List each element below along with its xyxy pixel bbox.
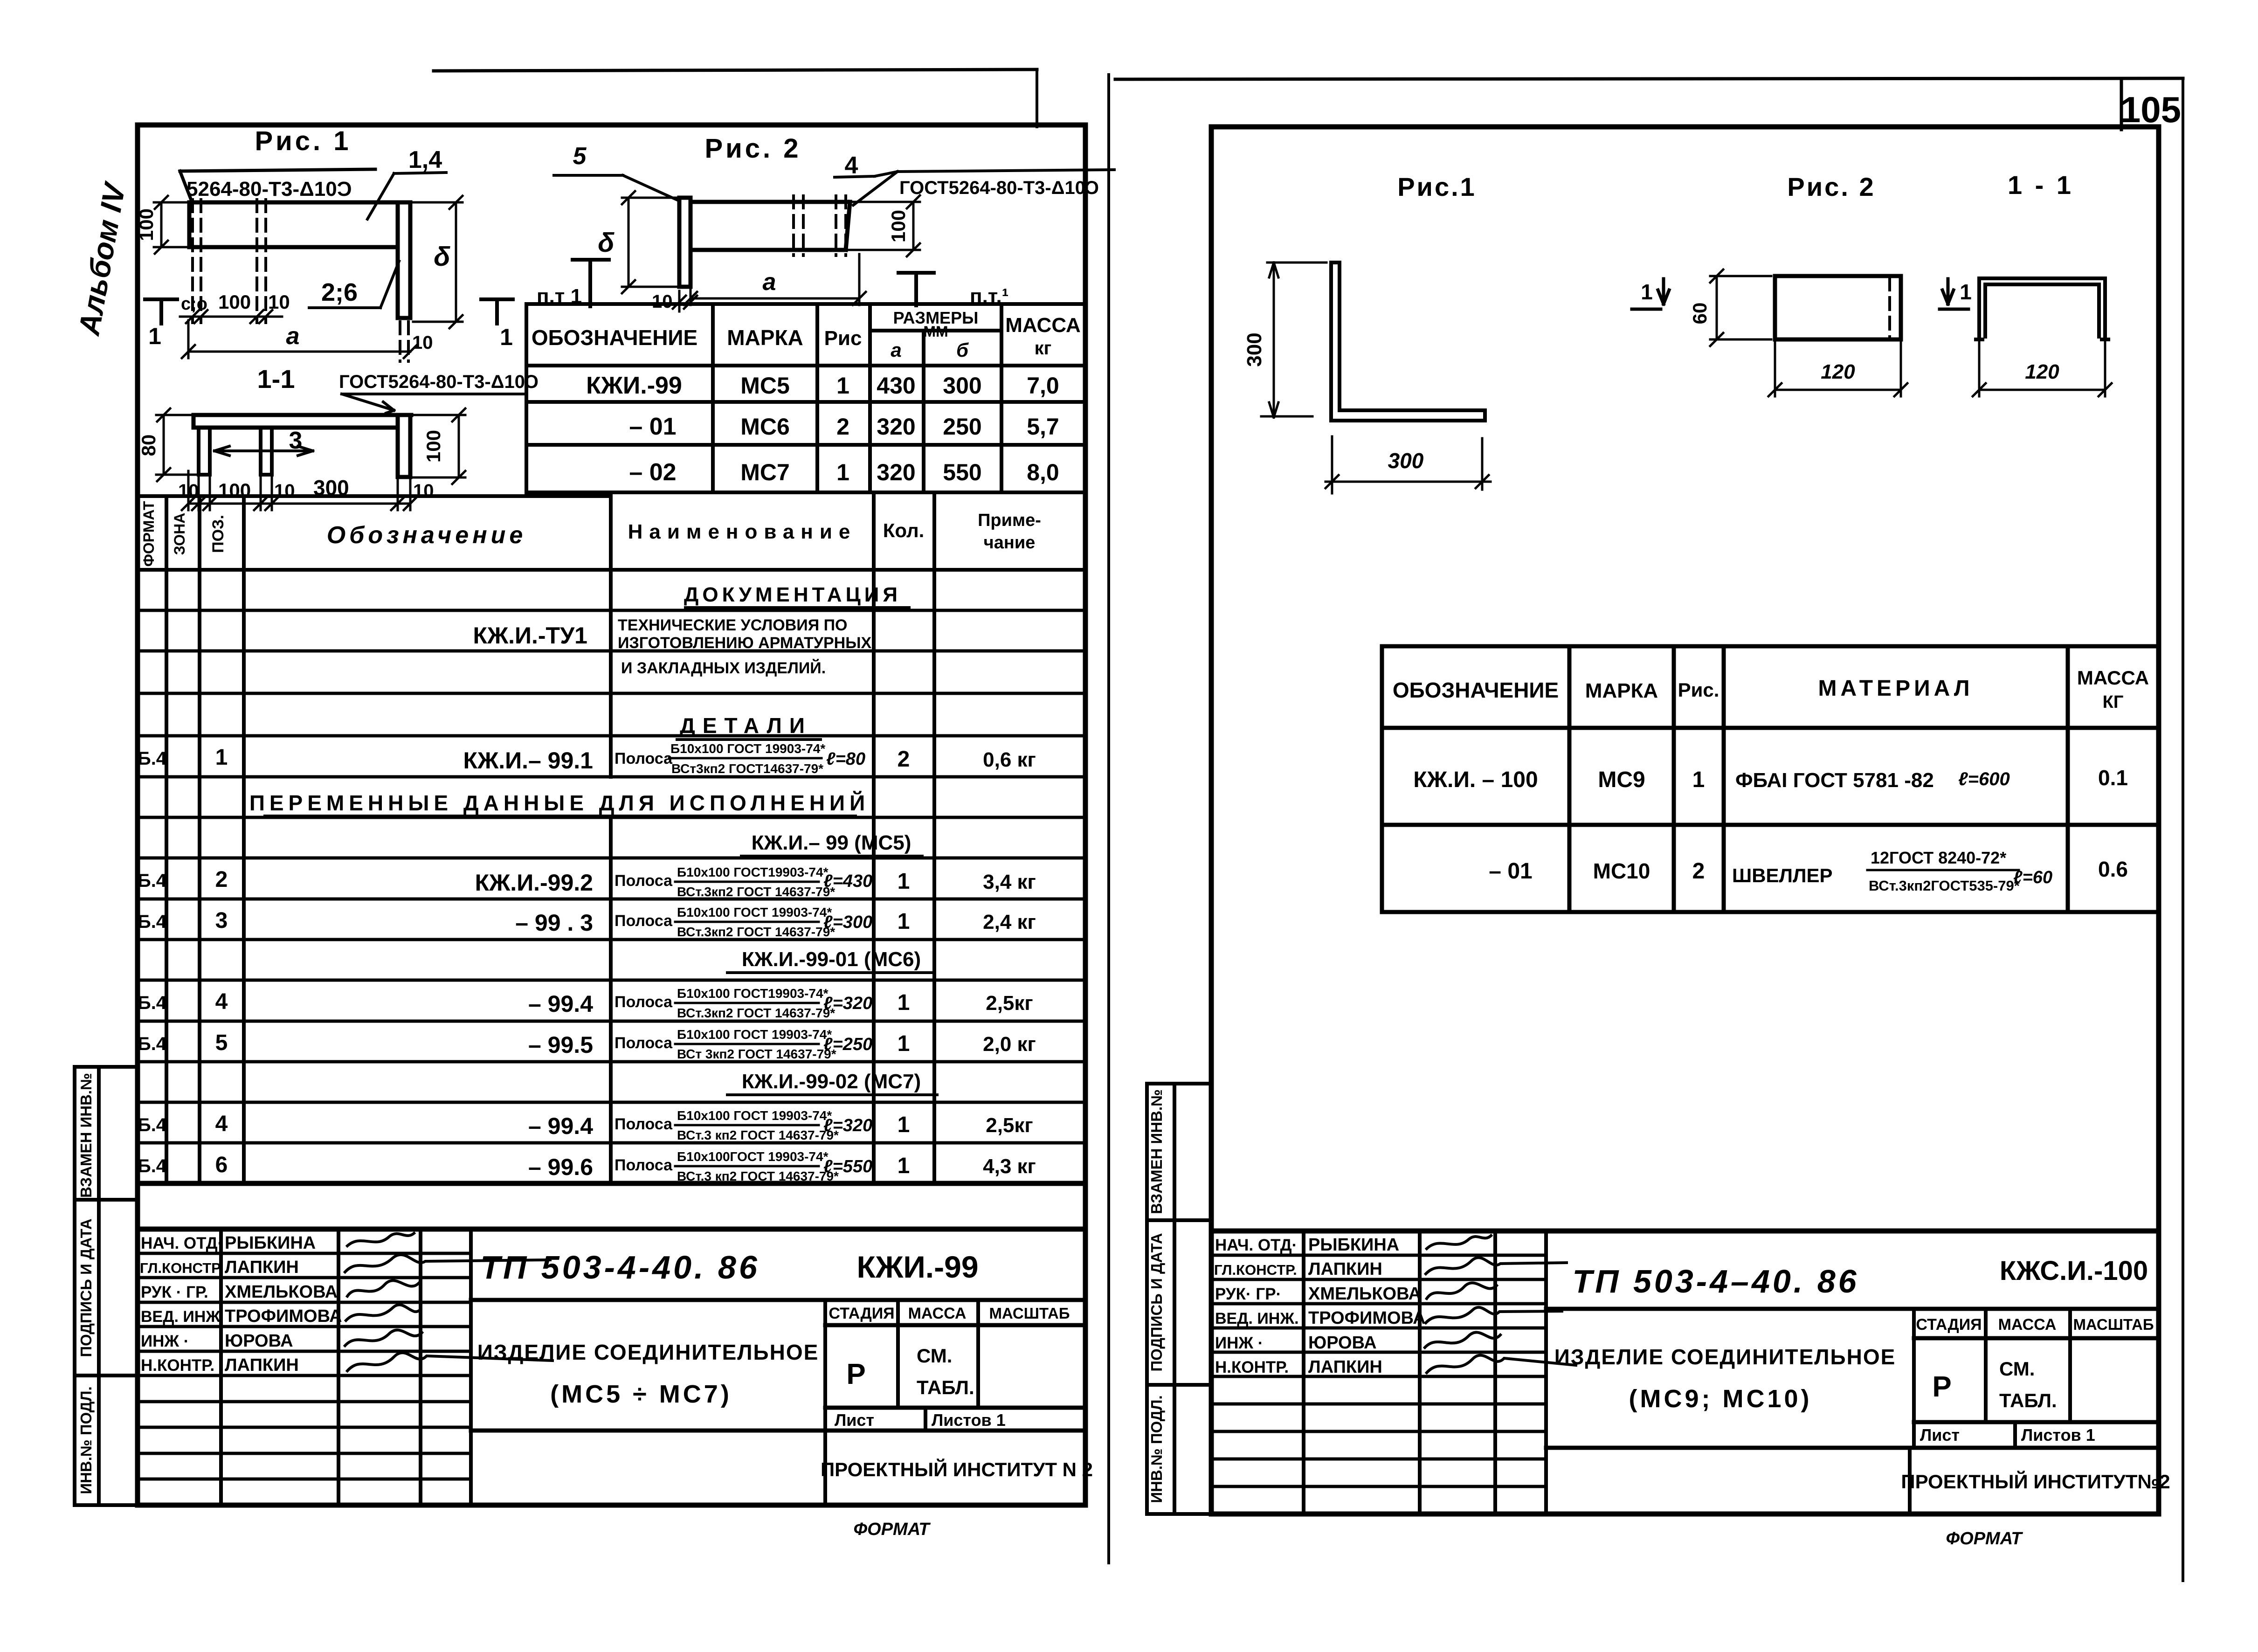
svg-text:ТАБЛ.: ТАБЛ. xyxy=(917,1376,974,1398)
node section mark left fig2 xyxy=(1632,279,1669,309)
svg-text:ВСт.3кп2 ГОСТ 14637-79*: ВСт.3кп2 ГОСТ 14637-79* xyxy=(677,925,835,939)
svg-text:ЮРОВА: ЮРОВА xyxy=(1308,1333,1377,1353)
svg-text:ВСт 3кп2 ГОСТ 14637-79*: ВСт 3кп2 ГОСТ 14637-79* xyxy=(677,1047,836,1061)
svg-text:Б10х100ГОСТ 19903-74*: Б10х100ГОСТ 19903-74* xyxy=(677,1149,829,1164)
svg-text:МАСШТАБ: МАСШТАБ xyxy=(989,1305,1070,1322)
wire rtitle verticals xyxy=(1304,1231,2070,1514)
wire fig2 weld dashed pair A xyxy=(794,196,803,256)
svg-text:Рис: Рис xyxy=(824,327,862,350)
RIGHT SHEET MATERIAL TABLE xyxy=(1382,646,2159,912)
svg-text:КГ: КГ xyxy=(2103,692,2124,712)
svg-text:Полоса: Полоса xyxy=(615,1156,673,1174)
svg-text:430: 430 xyxy=(877,373,915,399)
svg-text:ПОДПИСЬ И ДАТА: ПОДПИСЬ И ДАТА xyxy=(1148,1233,1165,1371)
node page number box divider xyxy=(2120,79,2123,130)
svg-text:300: 300 xyxy=(943,373,981,399)
svg-text:10: 10 xyxy=(178,481,199,501)
svg-text:РУК · ГР.: РУК · ГР. xyxy=(141,1283,208,1301)
svg-text:ℓ=60: ℓ=60 xyxy=(2013,868,2052,887)
svg-text:2,5кг: 2,5кг xyxy=(986,1114,1033,1137)
svg-text:ИЗДЕЛИЕ СОЕДИНИТЕЛЬНОЕ: ИЗДЕЛИЕ СОЕДИНИТЕЛЬНОЕ xyxy=(1554,1345,1896,1369)
wire parts table grid xyxy=(526,304,1084,492)
svg-text:ХМЕЛЬКОВА: ХМЕЛЬКОВА xyxy=(1308,1284,1421,1304)
svg-text:ℓ=250: ℓ=250 xyxy=(823,1035,872,1054)
svg-text:Б10х100 ГОСТ 19903-74*: Б10х100 ГОСТ 19903-74* xyxy=(677,1108,832,1123)
wire scan top edge left sheet xyxy=(434,69,1037,71)
wire rtitle rows right xyxy=(1546,1309,2159,1448)
svg-text:МС10: МС10 xyxy=(1593,859,1650,883)
svg-text:1: 1 xyxy=(1692,767,1705,792)
svg-text:РЫБКИНА: РЫБКИНА xyxy=(225,1233,316,1253)
svg-text:ЛАПКИН: ЛАПКИН xyxy=(1308,1259,1382,1279)
svg-text:МАСШТАБ: МАСШТАБ xyxy=(2073,1316,2154,1333)
svg-text:10: 10 xyxy=(652,291,673,312)
wire plate rect fig2 xyxy=(1775,276,1901,339)
svg-text:ТРОФИМОВА: ТРОФИМОВА xyxy=(1308,1308,1426,1328)
svg-text:6: 6 xyxy=(215,1153,228,1177)
node dim delta fig2 xyxy=(622,191,676,293)
RIGHT SHEET FRAME xyxy=(1147,127,2159,1514)
svg-text:МАТЕРИАЛ: МАТЕРИАЛ xyxy=(1818,676,1973,701)
svg-text:Полоса: Полоса xyxy=(615,750,673,767)
svg-text:4: 4 xyxy=(845,152,858,179)
LEFT SHEET FIGURE 1 xyxy=(135,126,539,510)
wire right sheet frame xyxy=(1211,127,2159,1514)
svg-text:МАССА: МАССА xyxy=(1005,314,1081,337)
svg-text:СТАДИЯ: СТАДИЯ xyxy=(829,1305,894,1322)
svg-text:1: 1 xyxy=(898,1113,910,1137)
node dim 100 left xyxy=(154,196,189,254)
svg-text:МАРКА: МАРКА xyxy=(727,325,803,350)
wire fig2 weld dashed pair B xyxy=(836,196,846,256)
svg-text:МС9: МС9 xyxy=(1598,767,1645,792)
svg-text:ГЛ.КОНСТР.: ГЛ.КОНСТР. xyxy=(1214,1262,1297,1278)
svg-text:ГЛ.КОНСТР.: ГЛ.КОНСТР. xyxy=(140,1260,223,1276)
svg-text:ИНЖ ·: ИНЖ · xyxy=(141,1332,189,1350)
svg-text:МС6: МС6 xyxy=(740,414,790,440)
svg-text:1: 1 xyxy=(1960,280,1972,304)
svg-text:0.1: 0.1 xyxy=(2098,766,2128,790)
svg-text:ИЗГОТОВЛЕНИЮ АРМАТУРНЫХ: ИЗГОТОВЛЕНИЮ АРМАТУРНЫХ xyxy=(618,634,872,652)
svg-text:ШВЕЛЛЕР: ШВЕЛЛЕР xyxy=(1732,864,1833,886)
svg-text:– 99 . 3: – 99 . 3 xyxy=(515,910,593,936)
svg-text:ОБОЗНАЧЕНИЕ: ОБОЗНАЧЕНИЕ xyxy=(1393,678,1559,702)
wire spec verticals xyxy=(166,492,934,1183)
LEFT SHEET FIGURE 2 xyxy=(537,133,1114,312)
wire rtitle top xyxy=(1211,1229,2159,1234)
svg-text:10: 10 xyxy=(412,332,433,353)
svg-text:5: 5 xyxy=(573,143,587,170)
svg-text:10: 10 xyxy=(413,481,434,501)
svg-text:7,0: 7,0 xyxy=(1027,373,1059,399)
svg-text:КЖ.И.-99-01 (МС6): КЖ.И.-99-01 (МС6) xyxy=(742,948,921,971)
svg-text:МАССА: МАССА xyxy=(1998,1316,2057,1334)
svg-text:ПОДПИСЬ И ДАТА: ПОДПИСЬ И ДАТА xyxy=(77,1218,95,1357)
node dim a bottom xyxy=(182,320,417,358)
svg-text:ВСт.3 кп2 ГОСТ 14637-79*: ВСт.3 кп2 ГОСТ 14637-79* xyxy=(677,1128,839,1142)
svg-text:КЖ.И.– 99 (МС5): КЖ.И.– 99 (МС5) xyxy=(752,831,911,854)
svg-text:ВЗАМЕН ИНВ.№: ВЗАМЕН ИНВ.№ xyxy=(1148,1089,1165,1214)
PAGE-LINES xyxy=(434,69,2183,1581)
wire spec row lines xyxy=(138,610,1084,1143)
svg-text:Б.4: Б.4 xyxy=(138,993,167,1013)
wire rtitle rows left xyxy=(1211,1255,1546,1486)
svg-text:СМ.: СМ. xyxy=(917,1345,952,1367)
node signatures xyxy=(347,1233,414,1246)
svg-text:ПРОЕКТНЫЙ ИНСТИТУТ N 2: ПРОЕКТНЫЙ ИНСТИТУТ N 2 xyxy=(821,1458,1093,1480)
svg-text:Б10х100 ГОСТ 19903-74*: Б10х100 ГОСТ 19903-74* xyxy=(670,741,825,756)
svg-text:а: а xyxy=(891,339,901,361)
svg-text:1: 1 xyxy=(898,1031,910,1056)
svg-text:4: 4 xyxy=(215,989,228,1014)
svg-text:Наименование: Наименование xyxy=(628,520,857,543)
svg-text:Р: Р xyxy=(1932,1371,1951,1403)
svg-text:ФБАΙ ГОСТ 5781 -82: ФБАΙ ГОСТ 5781 -82 xyxy=(1735,769,1934,792)
svg-text:Полоса: Полоса xyxy=(615,872,673,890)
svg-text:Н.КОНТР.: Н.КОНТР. xyxy=(1215,1358,1289,1376)
svg-text:ℓ=320: ℓ=320 xyxy=(823,994,872,1013)
svg-text:ℓ=430: ℓ=430 xyxy=(823,871,872,891)
node dim 300 vertical xyxy=(1261,263,1326,417)
svg-text:Р: Р xyxy=(846,1358,865,1390)
svg-text:ФОРМАТ: ФОРМАТ xyxy=(853,1520,931,1539)
wire fig2 vertical bar xyxy=(679,198,691,287)
svg-text:5,7: 5,7 xyxy=(1027,414,1059,440)
wire left strip outer xyxy=(75,1067,138,1505)
svg-text:Листов 1: Листов 1 xyxy=(2021,1425,2095,1445)
svg-text:КЖ.И.-ТУ1: КЖ.И.-ТУ1 xyxy=(473,622,587,649)
svg-text:Б.4: Б.4 xyxy=(138,912,167,932)
svg-text:105: 105 xyxy=(2120,89,2181,130)
svg-text:Н.КОНТР.: Н.КОНТР. xyxy=(141,1356,214,1375)
svg-text:0.6: 0.6 xyxy=(2098,857,2128,881)
svg-text:ИНВ.№ ПОДЛ.: ИНВ.№ ПОДЛ. xyxy=(77,1386,95,1494)
wire section mid leg xyxy=(261,428,272,475)
svg-text:МАССА: МАССА xyxy=(908,1305,967,1322)
svg-text:ФОРМАТ: ФОРМАТ xyxy=(1946,1529,2023,1548)
svg-text:МС5: МС5 xyxy=(740,373,790,399)
svg-text:δ: δ xyxy=(598,228,615,258)
svg-text:ХМЕЛЬКОВА: ХМЕЛЬКОВА xyxy=(225,1282,338,1302)
svg-text:Рис. 1: Рис. 1 xyxy=(255,126,351,156)
svg-text:РЫБКИНА: РЫБКИНА xyxy=(1308,1235,1399,1255)
svg-text:300: 300 xyxy=(1388,449,1424,473)
svg-text:ВСт3кп2 ГОСТ14637-79*: ВСт3кп2 ГОСТ14637-79* xyxy=(671,761,823,776)
node dim 120 fig2 xyxy=(1768,341,1907,396)
svg-text:Рис. 2: Рис. 2 xyxy=(1787,172,1875,201)
svg-text:Б.4: Б.4 xyxy=(138,748,167,769)
node dim 60 xyxy=(1710,270,1771,346)
node dim a fig2 xyxy=(684,254,866,305)
svg-text:2;6: 2;6 xyxy=(321,278,358,306)
svg-text:ФОРМАТ: ФОРМАТ xyxy=(140,501,157,567)
svg-text:120: 120 xyxy=(1821,360,1855,383)
svg-text:СТАДИЯ: СТАДИЯ xyxy=(1916,1316,1982,1334)
svg-text:Полоса: Полоса xyxy=(615,912,673,930)
svg-text:100: 100 xyxy=(135,208,157,241)
node section mark 1 right xyxy=(481,299,513,324)
node dim 100 right section xyxy=(413,408,465,484)
RIGHT SHEET FIGURES xyxy=(1243,170,2112,493)
node dim delta right xyxy=(413,196,463,328)
LEFT SHEET PARTS TABLE xyxy=(526,304,1084,492)
svg-text:Б.4: Б.4 xyxy=(138,1156,167,1176)
svg-text:ТРОФИМОВА: ТРОФИМОВА xyxy=(225,1306,342,1326)
svg-text:320: 320 xyxy=(877,459,915,485)
svg-text:100: 100 xyxy=(887,210,909,242)
node dim 120 channel xyxy=(1973,342,2112,396)
svg-text:1: 1 xyxy=(500,324,513,350)
svg-text:5264-80-Т3-Δ10Ͻ: 5264-80-Т3-Δ10Ͻ xyxy=(186,178,352,200)
svg-text:а: а xyxy=(763,269,776,296)
svg-text:Б.4: Б.4 xyxy=(138,871,167,891)
svg-text:КЖ.И. – 100: КЖ.И. – 100 xyxy=(1413,767,1538,792)
svg-text:МАРКА: МАРКА xyxy=(1585,679,1658,702)
wire weld dashed pair A xyxy=(193,200,201,323)
svg-text:ТЕХНИЧЕСКИЕ УСЛОВИЯ ПО: ТЕХНИЧЕСКИЕ УСЛОВИЯ ПО xyxy=(618,616,847,634)
svg-text:ДОКУМЕНТАЦИЯ: ДОКУМЕНТАЦИЯ xyxy=(684,583,901,606)
svg-text:ВЕД. ИНЖ: ВЕД. ИНЖ xyxy=(141,1308,220,1326)
svg-text:– 99.6: – 99.6 xyxy=(528,1154,593,1180)
svg-text:Кол.: Кол. xyxy=(883,519,925,541)
svg-text:8,0: 8,0 xyxy=(1027,459,1059,485)
wire fig2 plate xyxy=(691,202,850,250)
svg-text:5: 5 xyxy=(215,1030,228,1055)
svg-text:Рис.1: Рис.1 xyxy=(1397,172,1477,201)
svg-text:ВСт.3кп2ГОСТ535-79*: ВСт.3кп2ГОСТ535-79* xyxy=(1869,878,2020,894)
svg-text:Полоса: Полоса xyxy=(615,1115,673,1133)
svg-text:РУК· ГР·: РУК· ГР· xyxy=(1215,1285,1281,1303)
svg-text:4: 4 xyxy=(215,1112,228,1136)
svg-text:ПОЗ.: ПОЗ. xyxy=(209,515,227,553)
svg-text:δ: δ xyxy=(434,242,450,272)
wire title verticals xyxy=(221,1229,978,1505)
svg-text:ММ: ММ xyxy=(923,323,948,340)
node section mark right fig2 xyxy=(1940,279,1968,309)
svg-text:250: 250 xyxy=(943,414,981,440)
svg-text:КЖС.И.-100: КЖС.И.-100 xyxy=(2000,1256,2148,1286)
svg-text:1: 1 xyxy=(1641,280,1653,304)
svg-text:ℓ=80: ℓ=80 xyxy=(826,749,865,769)
node dim 300 horizontal xyxy=(1326,436,1491,493)
wire spec top line xyxy=(138,494,611,498)
svg-text:3,4 кг: 3,4 кг xyxy=(983,871,1036,893)
node dim 10 100 10 small xyxy=(180,310,282,323)
wire right-sheet left paper edge xyxy=(1107,75,1110,1563)
node callout GOST 5264 fig2 xyxy=(853,170,1114,205)
svg-text:10: 10 xyxy=(268,291,290,313)
svg-text:Б.4: Б.4 xyxy=(138,1115,167,1135)
svg-text:4,3 кг: 4,3 кг xyxy=(983,1155,1036,1178)
svg-text:Б10х100 ГОСТ 19903-74*: Б10х100 ГОСТ 19903-74* xyxy=(677,905,832,919)
svg-text:ЮРОВА: ЮРОВА xyxy=(225,1331,293,1351)
node bottom dims 10 100 10 300 10 xyxy=(182,471,417,510)
svg-text:ПЕРЕМЕННЫЕ ДАННЫЕ ДЛЯ ИСПОЛ: ПЕРЕМЕННЫЕ ДАННЫЕ ДЛЯ ИСПОЛНЕНИЙ xyxy=(249,791,870,815)
svg-text:2: 2 xyxy=(898,747,910,772)
wire weld dashed right edge xyxy=(1888,278,1891,338)
svg-text:1: 1 xyxy=(148,323,161,349)
svg-text:ℓ=300: ℓ=300 xyxy=(823,912,872,932)
svg-text:2: 2 xyxy=(836,414,849,440)
svg-text:1 - 1: 1 - 1 xyxy=(2008,170,2074,200)
wire channel shape xyxy=(1976,278,2108,339)
svg-text:ГОСТ5264-80-Т3-Δ10Ͻ: ГОСТ5264-80-Т3-Δ10Ͻ xyxy=(339,372,539,392)
svg-text:ЛАПКИН: ЛАПКИН xyxy=(225,1258,299,1277)
svg-text:2: 2 xyxy=(215,867,228,892)
svg-text:1: 1 xyxy=(898,1154,910,1178)
svg-text:ТП 503-4–40. 86: ТП 503-4–40. 86 xyxy=(1572,1263,1859,1299)
svg-text:КЖ.И.– 99.1: КЖ.И.– 99.1 xyxy=(463,747,593,774)
svg-text:МАССА: МАССА xyxy=(2077,667,2149,689)
svg-text:– 99.4: – 99.4 xyxy=(528,1113,593,1139)
wire left-sheet right paper fold xyxy=(1036,70,1038,127)
svg-text:ИЗДЕЛИЕ СОЕДИНИТЕЛЬНОЕ: ИЗДЕЛИЕ СОЕДИНИТЕЛЬНОЕ xyxy=(477,1340,819,1364)
svg-text:НАЧ. ОТД·: НАЧ. ОТД· xyxy=(1215,1236,1297,1254)
svg-text:КЖ.И.-99-02 (МС7): КЖ.И.-99-02 (МС7) xyxy=(742,1070,921,1093)
svg-text:ГОСТ5264-80-Т3-Δ10Ͻ: ГОСТ5264-80-Т3-Δ10Ͻ xyxy=(899,178,1099,198)
wire title rows left xyxy=(138,1253,471,1479)
svg-text:И ЗАКЛАДНЫХ ИЗДЕЛИЙ.: И ЗАКЛАДНЫХ ИЗДЕЛИЙ. xyxy=(621,659,826,677)
svg-text:(МС9; МС10): (МС9; МС10) xyxy=(1629,1385,1812,1413)
svg-text:ℓ=320: ℓ=320 xyxy=(823,1116,872,1135)
svg-text:КЖ.И.-99.2: КЖ.И.-99.2 xyxy=(475,870,593,896)
svg-text:Альбом IV: Альбом IV xyxy=(72,179,132,339)
svg-text:а: а xyxy=(286,323,300,350)
svg-text:2,5кг: 2,5кг xyxy=(986,992,1033,1015)
svg-text:Рис. 2: Рис. 2 xyxy=(704,133,801,164)
svg-text:– 01: – 01 xyxy=(629,413,676,440)
svg-text:– 01: – 01 xyxy=(1489,859,1532,884)
svg-text:1: 1 xyxy=(836,459,849,485)
wire title top xyxy=(138,1227,1084,1232)
svg-text:2,0 кг: 2,0 кг xyxy=(983,1033,1036,1056)
svg-text:ВСт.3кп2 ГОСТ 14637-79*: ВСт.3кп2 ГОСТ 14637-79* xyxy=(677,885,835,899)
wire right bar plate xyxy=(398,202,410,318)
wire section left leg xyxy=(199,428,210,475)
wire section right bar xyxy=(398,415,410,477)
wire spec header bottom xyxy=(138,568,1084,572)
wire right strip outer xyxy=(1147,1084,1211,1514)
wire scan top edge right sheet xyxy=(1115,78,2183,79)
svg-text:Б10х100 ГОСТ19903-74*: Б10х100 ГОСТ19903-74* xyxy=(677,986,829,1001)
svg-text:НАЧ. ОТД·: НАЧ. ОТД· xyxy=(141,1234,223,1252)
svg-text:1-1: 1-1 xyxy=(257,364,295,394)
svg-text:ДЕТАЛИ: ДЕТАЛИ xyxy=(680,713,812,738)
svg-text:ВЗАМЕН ИНВ.№: ВЗАМЕН ИНВ.№ xyxy=(77,1073,95,1198)
svg-text:3: 3 xyxy=(215,908,228,933)
svg-text:ЛАПКИН: ЛАПКИН xyxy=(225,1355,299,1375)
svg-text:ТП 503-4-40. 86: ТП 503-4-40. 86 xyxy=(480,1249,760,1286)
svg-text:– 02: – 02 xyxy=(629,459,676,486)
svg-text:320: 320 xyxy=(877,414,915,440)
svg-text:Б10х100 ГОСТ19903-74*: Б10х100 ГОСТ19903-74* xyxy=(677,865,829,879)
svg-text:ℓ=600: ℓ=600 xyxy=(1958,769,2010,789)
node pt1 mark left xyxy=(573,260,609,306)
wire angle L shape xyxy=(1331,263,1485,421)
svg-text:Лист: Лист xyxy=(835,1410,874,1430)
svg-text:ИНВ.№ ПОДЛ.: ИНВ.№ ПОДЛ. xyxy=(1148,1395,1165,1503)
wire section plate xyxy=(193,415,411,428)
svg-text:ВЕД. ИНЖ.: ВЕД. ИНЖ. xyxy=(1215,1310,1299,1327)
svg-text:ЛАПКИН: ЛАПКИН xyxy=(1308,1357,1382,1377)
wire spec bottom xyxy=(138,1181,1084,1186)
svg-text:1: 1 xyxy=(898,990,910,1015)
svg-text:ОБОЗНАЧЕНИЕ: ОБОЗНАЧЕНИЕ xyxy=(532,325,697,350)
svg-text:б: б xyxy=(956,339,969,361)
wire right paper outer edge xyxy=(2182,78,2184,1581)
svg-text:чание: чание xyxy=(984,533,1036,553)
svg-text:ВСт.3 кп2 ГОСТ 14637-79*: ВСт.3 кп2 ГОСТ 14637-79* xyxy=(677,1169,839,1183)
svg-text:Лист: Лист xyxy=(1920,1425,1960,1445)
svg-text:100: 100 xyxy=(422,430,444,463)
wire bar dashes below xyxy=(400,322,408,361)
svg-text:550: 550 xyxy=(943,459,981,485)
svg-text:ПРОЕКТНЫЙ ИНСТИТУТ№2: ПРОЕКТНЫЙ ИНСТИТУТ№2 xyxy=(1901,1470,2170,1493)
node signatures right xyxy=(1427,1236,1491,1249)
svg-text:ТАБЛ.: ТАБЛ. xyxy=(1999,1389,2057,1411)
svg-text:1: 1 xyxy=(836,373,849,399)
svg-text:60: 60 xyxy=(1689,303,1711,325)
node callout flag 5264-80 xyxy=(180,169,375,202)
wire weld dashed pair B xyxy=(257,200,266,323)
svg-text:Обозначение: Обозначение xyxy=(327,522,527,549)
LEFT SHEET TITLE BLOCK xyxy=(138,1229,1093,1539)
svg-text:МС7: МС7 xyxy=(740,459,790,485)
LEFT SHEET SPEC TABLE xyxy=(138,492,1084,1183)
node pt1 mark right xyxy=(898,273,934,305)
svg-text:Листов 1: Листов 1 xyxy=(932,1410,1006,1430)
svg-text:– 99.5: – 99.5 xyxy=(528,1032,593,1058)
svg-text:1: 1 xyxy=(898,909,910,934)
svg-text:0,6 кг: 0,6 кг xyxy=(983,748,1036,771)
svg-text:КЖИ.-99: КЖИ.-99 xyxy=(586,372,682,399)
svg-text:КЖИ.-99: КЖИ.-99 xyxy=(856,1250,978,1284)
wire plate top band xyxy=(189,202,410,247)
svg-text:ℓ=550: ℓ=550 xyxy=(823,1157,872,1176)
svg-text:Рис.: Рис. xyxy=(1678,679,1719,701)
svg-text:300: 300 xyxy=(1243,332,1266,366)
svg-text:СМ.: СМ. xyxy=(1999,1358,2035,1380)
svg-text:Б10х100 ГОСТ 19903-74*: Б10х100 ГОСТ 19903-74* xyxy=(677,1027,832,1042)
wire left sheet frame xyxy=(138,125,1085,1505)
svg-text:2: 2 xyxy=(1692,859,1705,884)
node dim 100 fig2 right xyxy=(849,195,920,256)
svg-text:Полоса: Полоса xyxy=(615,993,673,1011)
svg-text:10: 10 xyxy=(274,481,295,501)
node dim 80 left xyxy=(156,408,196,481)
svg-text:ВСт.3кп2 ГОСТ 14637-79*: ВСт.3кп2 ГОСТ 14637-79* xyxy=(677,1006,835,1020)
svg-text:80: 80 xyxy=(138,435,159,456)
svg-text:1,4: 1,4 xyxy=(408,146,442,173)
svg-text:ЗОНА: ЗОНА xyxy=(171,513,188,555)
wire title rows right xyxy=(471,1300,1084,1431)
svg-text:кг: кг xyxy=(1035,338,1052,359)
svg-text:1: 1 xyxy=(215,745,228,770)
node section mark 1 left xyxy=(145,299,177,324)
svg-text:ИНЖ ·: ИНЖ · xyxy=(1215,1334,1263,1352)
svg-text:Б.4: Б.4 xyxy=(138,1034,167,1054)
svg-text:2,4 кг: 2,4 кг xyxy=(983,911,1036,933)
svg-text:12ГОСТ 8240-72*: 12ГОСТ 8240-72* xyxy=(1871,848,2006,867)
svg-text:Приме-: Приме- xyxy=(978,511,1041,530)
wire material table grid xyxy=(1382,646,2159,912)
LEFT SHEET FRAME xyxy=(72,125,1085,1505)
RIGHT SHEET TITLE BLOCK xyxy=(1211,1231,2170,1548)
svg-text:с;о: с;о xyxy=(181,294,207,314)
svg-text:– 99.4: – 99.4 xyxy=(528,991,593,1017)
svg-text:100: 100 xyxy=(218,291,251,313)
svg-text:Полоса: Полоса xyxy=(615,1034,673,1052)
